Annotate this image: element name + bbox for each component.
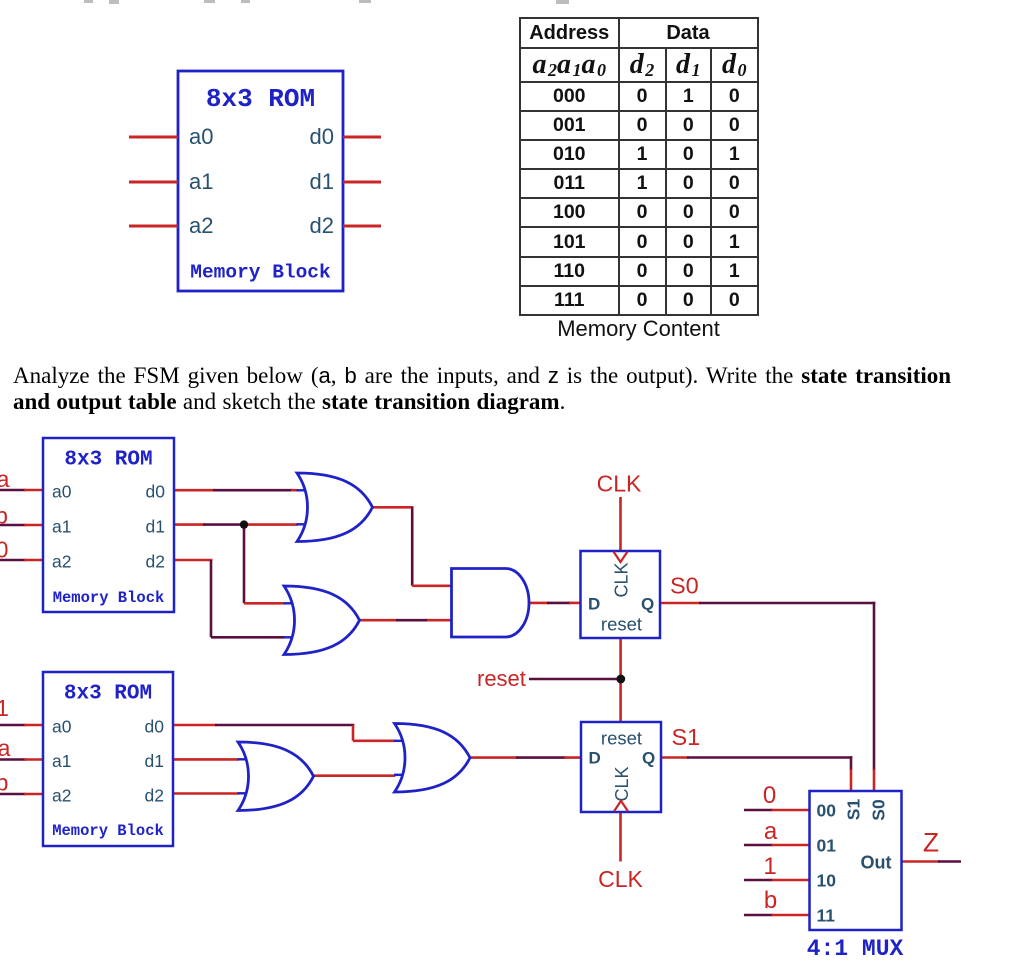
wire net S0 into MUX U6 S0 select pin (red) [873, 769, 876, 792]
wire OR G4 output (dark) [516, 756, 566, 759]
node junction on reset net [616, 675, 625, 684]
wire input 1 to ROM U3 a0 (red) [24, 724, 45, 727]
svg-text:00: 00 [817, 801, 837, 821]
wire MUX U6 Out to Z (red) [901, 860, 940, 863]
svg-text:d2: d2 [146, 552, 165, 572]
svg-text:a1: a1 [52, 517, 71, 537]
svg-text:8x3 ROM: 8x3 ROM [64, 683, 152, 706]
wire U1 d1 output stub [343, 181, 381, 184]
svg-text:Out: Out [861, 853, 892, 873]
or-gate G1 input stub top [297, 489, 312, 491]
svg-text:a2: a2 [52, 786, 71, 806]
ROM U1 box (8x3 ROM Memory Block, top standalone) [178, 71, 343, 291]
svg-text:CLK: CLK [612, 562, 632, 597]
wire net d2 down (dark vertical) [210, 560, 213, 637]
svg-text:1: 1 [0, 695, 9, 721]
wire U1 d0 output stub [343, 136, 381, 139]
svg-text:Z: Z [923, 828, 939, 858]
svg-text:1: 1 [763, 853, 776, 880]
wire net S1 into MUX U6 S1 select pin (red) [850, 769, 853, 792]
wire MUX U6 Out to Z (dark) [938, 860, 961, 863]
svg-text:a0: a0 [189, 124, 213, 149]
wire net d0 U3 (dark) [215, 724, 354, 727]
svg-text:S0: S0 [670, 573, 699, 599]
or-gate G2 input stub top [284, 602, 299, 604]
wire net d1 to OR G1 lower input (red) [244, 523, 298, 526]
wire MUX input 11 signal b (dark) [744, 914, 773, 917]
svg-text:D: D [589, 749, 601, 768]
svg-text:a0: a0 [52, 482, 72, 502]
wire MUX input 01 (red) [772, 844, 811, 847]
ROM U2 box (8x3 ROM upper circuit) [43, 438, 174, 612]
flip-flop U4 clock edge chevron [614, 552, 628, 562]
svg-text:CLK: CLK [612, 766, 632, 801]
svg-text:Memory Block: Memory Block [52, 822, 164, 840]
svg-text:CLK: CLK [598, 866, 643, 892]
wire input a to ROM U2 a0 (dark) [0, 489, 26, 492]
wire to DFF U4 D input (red) [569, 602, 582, 605]
svg-text:01: 01 [817, 836, 837, 856]
svg-text:D: D [588, 595, 600, 614]
flip-flop U5 clock edge chevron [614, 801, 628, 812]
svg-text:b: b [0, 770, 8, 796]
svg-text:d0: d0 [310, 124, 334, 149]
or-gate G2 (lower, d1+d2) [284, 586, 360, 655]
svg-text:10: 10 [817, 871, 837, 891]
svg-text:11: 11 [817, 906, 836, 926]
wire input b to ROM U3 a2 (dark) [0, 793, 26, 796]
wire AND G5 output (dark) [547, 602, 571, 605]
svg-text:Memory Block: Memory Block [190, 262, 331, 284]
svg-text:8x3 ROM: 8x3 ROM [64, 449, 152, 472]
wire net d2 to OR G2 lower input (dark) [211, 636, 285, 639]
wire input b to ROM U2 a1 (red) [24, 524, 45, 527]
wire input 1 to ROM U3 a0 (dark) [0, 724, 26, 727]
wire net d1 U2 (dark) [203, 523, 244, 526]
svg-text:Q: Q [642, 749, 655, 768]
wire MUX input 00 constant 0 (dark) [744, 809, 773, 812]
wire MUX input 10 constant 1 (dark) [744, 879, 773, 882]
wire CLK drop to DFF U4 (red vertical) [619, 497, 622, 552]
wire input a to ROM U3 a1 (red) [24, 758, 45, 761]
or-gate G3 (lower circuit, d1+d2) [238, 742, 314, 811]
wire OR G2 output (dark) [396, 619, 429, 622]
svg-text:d0: d0 [146, 482, 166, 502]
wire to DFF U5 D input (red) [564, 756, 582, 759]
wire U1 a2 input stub [129, 225, 178, 228]
svg-text:d1: d1 [145, 751, 164, 771]
problem statement paragraph [13, 363, 1023, 415]
svg-text:Memory Block: Memory Block [53, 589, 165, 607]
wire net d1 U3 to OR G3 (red) [173, 758, 239, 761]
wire net d1 branch down to OR G2 (dark vertical) [243, 525, 246, 604]
wire reset vertical DFF U4 to DFF U5 (red) [619, 637, 622, 723]
svg-text:a: a [0, 466, 10, 492]
wire OR G2 output (red) [360, 619, 399, 622]
svg-text:a1: a1 [52, 751, 71, 771]
wire net S1 vertical to MUX U6 (dark) [850, 756, 853, 770]
cropped text remnant fragments at page top [84, 0, 93, 3]
or-gate G4 input stub bottom [394, 774, 409, 776]
svg-text:reset: reset [477, 666, 526, 691]
wire net d0 U2 to OR G1 (dark) [213, 489, 293, 492]
svg-text:b: b [0, 503, 8, 529]
wire input b to ROM U2 a1 (dark) [0, 524, 26, 527]
wire OR G4 output (red) [470, 756, 518, 759]
wire DFF U5 Q output S1 (red) [661, 756, 689, 759]
wire OR G3 output to OR G4 lower input (red) [314, 774, 396, 777]
svg-text:0: 0 [0, 537, 8, 563]
or-gate G3 input stub top [238, 758, 253, 760]
svg-text:a2: a2 [52, 552, 71, 572]
svg-text:d1: d1 [310, 169, 334, 194]
svg-text:a2: a2 [189, 213, 213, 238]
svg-text:CLK: CLK [597, 471, 642, 497]
wire net d0 elbow down (red vertical) [352, 725, 355, 741]
wire DFF U4 Q output S0 (red) [660, 602, 701, 605]
flip-flop U5 box (D flip-flop, state bit S1) [581, 722, 661, 812]
wire input a to ROM U2 a0 (red) [24, 489, 45, 492]
or-gate G1 (upper, d0+d1) [297, 473, 373, 542]
wire net d1 U2 (red) [174, 523, 205, 526]
wire OR G1 output (red) [373, 506, 414, 509]
wire MUX input 01 signal a (dark) [744, 844, 773, 847]
svg-text:S1: S1 [844, 799, 864, 821]
wire input 0 to ROM U2 a2 (dark) [0, 559, 26, 562]
wire to AND G5 top input (red) [412, 584, 452, 587]
wire MUX input 00 (red) [772, 809, 811, 812]
or-gate G3 input stub bottom [238, 792, 253, 794]
svg-text:a1: a1 [189, 169, 213, 194]
wire U1 d2 output stub [343, 225, 381, 228]
or-gate G4 input stub top [394, 740, 409, 742]
svg-text:a: a [764, 818, 778, 845]
svg-text:d2: d2 [310, 213, 334, 238]
node junction on net d1 at OR G1/G2 branch [240, 520, 248, 528]
or-gate G2 input stub bottom [284, 636, 299, 638]
svg-text:d2: d2 [145, 786, 164, 806]
svg-text:d0: d0 [145, 717, 165, 737]
wire net S1 horizontal (dark) [687, 756, 852, 759]
wire input a to ROM U3 a1 (dark) [0, 758, 26, 761]
svg-text:reset: reset [601, 728, 642, 749]
svg-text:reset: reset [601, 614, 642, 635]
mux U6 box (4:1 MUX) [810, 791, 902, 930]
wire net d0 U2 to OR G1 (red tip) [291, 489, 298, 492]
wire OR G1 output down (dark vertical) [411, 507, 414, 586]
svg-text:b: b [764, 887, 777, 914]
wire AND G5 output (red) [529, 602, 550, 605]
or-gate G4 (lower circuit, d0+or3) [395, 724, 471, 793]
wire net d0 U2 to OR G1 (red) [174, 489, 215, 492]
svg-text:8x3 ROM: 8x3 ROM [206, 84, 315, 114]
svg-text:S1: S1 [672, 724, 701, 750]
wire net d1 branch to OR G2 top input (red) [244, 602, 285, 605]
wire MUX input 10 (red) [772, 879, 811, 882]
memory content table [519, 17, 759, 316]
wire net S0 horizontal (dark) [699, 602, 875, 605]
wire net S0 vertical to MUX U6 (dark) [873, 602, 876, 771]
wire net d0 to OR G4 top input (red) [353, 739, 396, 742]
wire DFF U5 clock drop (red vertical) [619, 811, 622, 862]
wire U1 a0 input stub [129, 136, 178, 139]
wire input 0 to ROM U2 a2 (red) [24, 559, 45, 562]
wire U1 a1 input stub [129, 181, 178, 184]
ROM U3 box (8x3 ROM lower circuit) [43, 672, 173, 846]
svg-text:d1: d1 [146, 517, 165, 537]
svg-text:a: a [0, 735, 11, 761]
svg-text:S0: S0 [869, 799, 889, 821]
wire net d2 U2 (red) [174, 559, 213, 562]
wire net d2 U3 to OR G3 (red) [173, 792, 239, 795]
and-gate G5 [452, 569, 530, 638]
wire MUX input 11 (red) [772, 914, 811, 917]
svg-text:a0: a0 [52, 717, 72, 737]
flip-flop U4 box (D flip-flop, state bit S0) [581, 551, 661, 638]
svg-text:0: 0 [763, 782, 776, 809]
svg-text:4:1 MUX: 4:1 MUX [807, 936, 904, 962]
wire input b to ROM U3 a2 (red) [24, 793, 45, 796]
wire net d0 U3 (red) [173, 724, 217, 727]
wire to AND G5 lower input (red) [427, 619, 452, 622]
wire reset net horizontal (dark) [529, 678, 622, 681]
table caption [519, 316, 758, 342]
or-gate G1 input stub bottom [297, 523, 312, 525]
svg-text:Q: Q [641, 595, 654, 614]
